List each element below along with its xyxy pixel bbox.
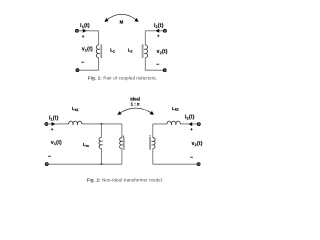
svg-text:+: +	[51, 127, 54, 132]
terminal fig2 top-right	[197, 123, 200, 126]
wire Lm upper	[100, 124, 102, 138]
wire fig1 left branch upper	[98, 31, 100, 45]
terminal fig1 bottom-left	[76, 69, 79, 72]
current arrow i1 fig1	[83, 29, 87, 33]
svg-text:v2(t): v2(t)	[192, 141, 203, 147]
svg-text:i2(t): i2(t)	[154, 23, 164, 29]
svg-text:+: +	[82, 34, 85, 39]
inductor Lk2 coil	[167, 121, 180, 124]
svg-text:+: +	[190, 127, 193, 132]
current arrow i2 fig2	[189, 122, 193, 126]
junction dot bottom node	[101, 163, 103, 165]
svg-text:−: −	[81, 60, 84, 66]
svg-text:L2: L2	[128, 48, 133, 54]
inductor L2 coil	[145, 45, 147, 58]
wire Lk2 to terminal	[180, 123, 197, 125]
svg-text:v1(t): v1(t)	[82, 47, 93, 53]
wire fig1 left branch lower	[79, 58, 99, 71]
svg-text:i1(t): i1(t)	[49, 116, 59, 122]
terminal fig1 top-left	[75, 29, 78, 32]
terminal fig1 bottom-right	[163, 69, 166, 72]
mutual inductance arrow M	[106, 14, 138, 20]
transformer primary core bar	[123, 137, 125, 150]
inductor L2 core bar	[142, 44, 144, 58]
current arrow i2 fig1	[156, 29, 160, 33]
svg-text:Fig. 2: Non-ideal transformer: Fig. 2: Non-ideal transformer model.	[87, 177, 164, 182]
junction dot top node	[101, 123, 103, 125]
wire Lk1 to primary	[82, 123, 122, 125]
wire fig1 top-left	[79, 30, 99, 32]
svg-text:Lk2: Lk2	[172, 106, 179, 112]
svg-text:Lk1: Lk1	[72, 106, 79, 112]
bottom wire fig2 right	[153, 163, 197, 165]
svg-text:−: −	[48, 154, 51, 160]
wire fig1 top-right	[145, 30, 163, 32]
transformer primary coil	[120, 138, 122, 149]
transformer secondary core bar	[149, 137, 151, 150]
inductor Lk1 coil	[69, 121, 82, 124]
transformer secondary lower wire	[152, 149, 154, 165]
svg-text:v2(t): v2(t)	[157, 49, 168, 55]
svg-text:i1(t): i1(t)	[80, 23, 90, 29]
terminal fig2 bottom-right	[197, 163, 200, 166]
transformer secondary coil	[153, 138, 155, 149]
wire Lm lower	[100, 149, 102, 165]
svg-text:−: −	[156, 62, 159, 68]
transformer secondary polarity dot	[149, 135, 150, 136]
svg-text:1 : n: 1 : n	[131, 101, 140, 106]
svg-text:L1: L1	[110, 48, 115, 54]
svg-text:Fig. 1: Pair of coupled induct: Fig. 1: Pair of coupled inductors.	[88, 75, 157, 80]
transformer secondary upper wire	[152, 124, 154, 138]
svg-text:v1(t): v1(t)	[51, 140, 62, 146]
inductor L1 core bar	[100, 44, 102, 58]
bottom wire fig2 left	[48, 163, 122, 165]
svg-text:Lm: Lm	[83, 142, 89, 148]
terminal fig1 top-right	[163, 29, 166, 32]
svg-text:−: −	[190, 155, 193, 161]
svg-text:i2(t): i2(t)	[185, 115, 195, 121]
terminal fig2 top-left	[45, 123, 48, 126]
inductor L1 coil	[96, 45, 98, 58]
transformer primary upper wire	[121, 124, 123, 138]
svg-text:+: +	[157, 34, 160, 39]
inductor Lm coil	[99, 138, 101, 149]
current arrow i1 fig2	[52, 122, 56, 126]
svg-text:M: M	[120, 20, 124, 25]
wire secondary to Lk2	[153, 123, 167, 125]
wire fig1 right branch upper	[144, 31, 146, 45]
wire fig2 terminal to Lk1	[48, 123, 69, 125]
ideal transformer ratio arrow	[119, 108, 153, 114]
wire fig1 right branch lower	[145, 58, 163, 71]
transformer primary lower wire	[121, 149, 123, 165]
terminal fig2 bottom-left	[45, 163, 48, 166]
transformer primary polarity dot	[123, 136, 124, 137]
